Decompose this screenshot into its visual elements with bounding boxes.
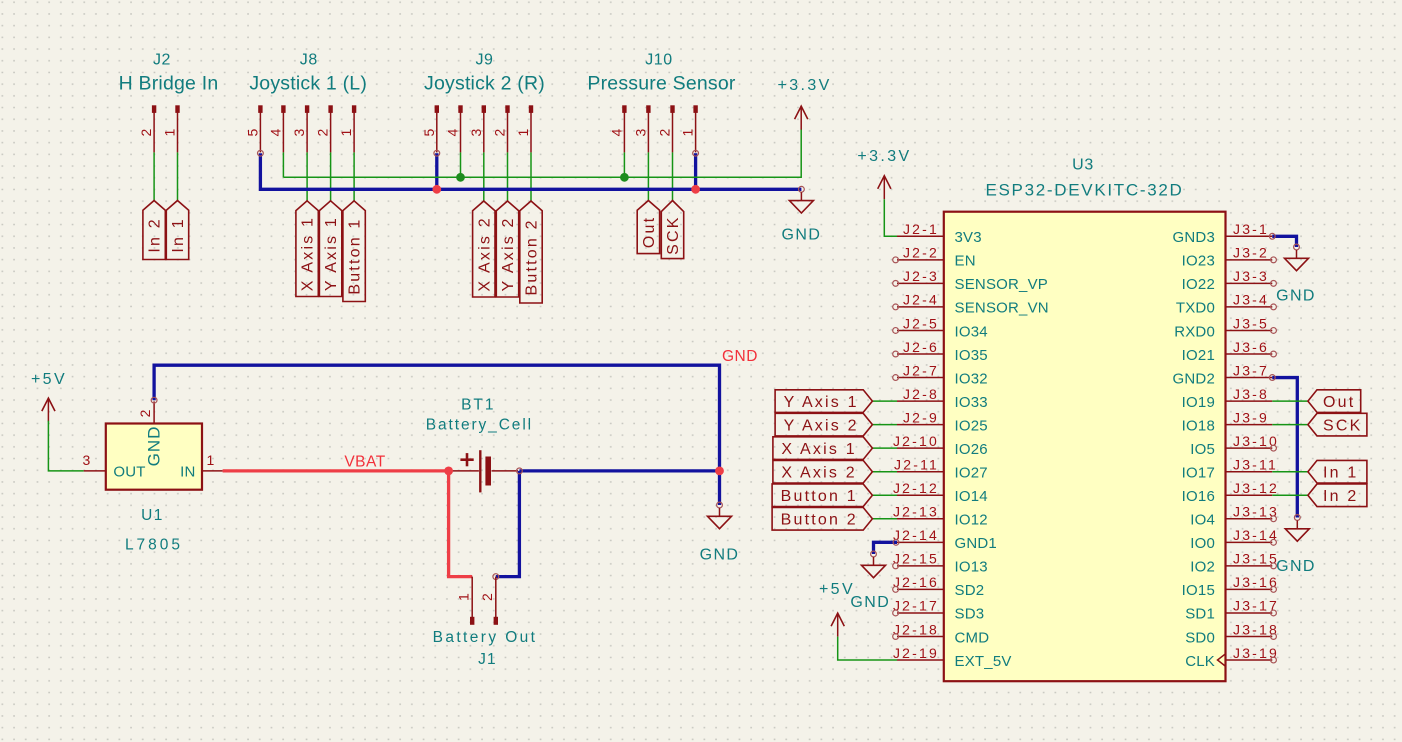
wire In 1 at U3 right xyxy=(1272,471,1308,473)
wire U3 GND2 to ground xyxy=(1272,378,1297,518)
svg-text:Out: Out xyxy=(641,216,658,248)
connector J2 reference and name xyxy=(119,52,219,95)
pin J3-17 of U3 (SD1) xyxy=(1185,598,1279,623)
pin J3-19 of U3 (CLK) xyxy=(1185,645,1279,670)
svg-text:SENSOR_VP: SENSOR_VP xyxy=(955,276,1049,293)
pin J3-10 of U3 (IO5) xyxy=(1190,433,1279,458)
svg-text:1: 1 xyxy=(680,127,696,137)
pin J3-4 of U3 (TXD0) xyxy=(1176,292,1277,317)
pin J3-2 of U3 (IO23) xyxy=(1182,245,1277,270)
U1 pin name OUT xyxy=(113,464,145,481)
svg-text:SD1: SD1 xyxy=(1185,606,1215,623)
svg-text:2: 2 xyxy=(138,127,154,137)
svg-text:IO17: IO17 xyxy=(1182,465,1215,482)
wire +5V to U3 EXT_5V xyxy=(838,637,897,660)
svg-text:J2-1: J2-1 xyxy=(903,221,939,237)
net label SCK xyxy=(661,201,683,259)
svg-text:GND: GND xyxy=(850,594,890,611)
wire X Axis 2 to U3 xyxy=(872,471,897,473)
pin J3-6 of U3 (IO21) xyxy=(1182,339,1277,364)
net label VBAT xyxy=(344,454,385,471)
net label X Axis 1 at U3 xyxy=(773,437,873,460)
net label Button 2 at U3 xyxy=(772,507,872,530)
svg-text:GND: GND xyxy=(1276,288,1316,305)
connector J1 name and reference xyxy=(433,629,538,668)
wire J10 pin1 to GND bus xyxy=(694,153,697,189)
wire X Axis 1 to U3 xyxy=(872,447,897,449)
dangling end circle J8 pin5 xyxy=(258,150,264,156)
svg-text:IO35: IO35 xyxy=(955,347,988,364)
svg-text:SD3: SD3 xyxy=(955,606,985,623)
net label In 2 at U3 right xyxy=(1308,484,1367,507)
svg-text:3: 3 xyxy=(83,452,93,468)
svg-text:2: 2 xyxy=(657,127,673,137)
svg-text:IO2: IO2 xyxy=(1190,559,1215,576)
svg-text:IO18: IO18 xyxy=(1182,417,1215,434)
wire J10 pin2 to label xyxy=(672,152,674,200)
svg-text:In 1: In 1 xyxy=(170,217,187,253)
power symbol +3.3V at U3 xyxy=(857,148,911,199)
net label In 1 at U3 right xyxy=(1308,460,1367,483)
svg-text:IO15: IO15 xyxy=(1182,582,1215,599)
svg-text:3: 3 xyxy=(468,127,484,137)
svg-text:J3-15: J3-15 xyxy=(1233,551,1279,567)
pin J2-6 of U3 (IO35) xyxy=(893,339,988,364)
svg-text:GND: GND xyxy=(1276,558,1316,575)
pin J2-10 of U3 (IO26) xyxy=(893,433,988,458)
svg-text:SENSOR_VN: SENSOR_VN xyxy=(955,300,1049,317)
svg-text:2: 2 xyxy=(137,407,153,417)
svg-text:IO23: IO23 xyxy=(1182,253,1215,270)
U1 value L7805 xyxy=(125,537,183,554)
junction J9 pin4 on 3.3V bus xyxy=(456,173,465,182)
svg-text:SCK: SCK xyxy=(665,215,682,255)
pin J2-15 of U3 (IO13) xyxy=(893,551,988,576)
net label Button 1 xyxy=(343,201,365,302)
U1 pin name IN xyxy=(180,464,195,481)
svg-text:3: 3 xyxy=(632,127,648,137)
svg-text:RXD0: RXD0 xyxy=(1174,323,1215,340)
pin 5 of J8 xyxy=(244,105,262,152)
net label Y Axis 2 xyxy=(496,201,518,297)
svg-text:IO25: IO25 xyxy=(955,417,988,434)
svg-text:H Bridge In: H Bridge In xyxy=(119,73,219,95)
svg-text:TXD0: TXD0 xyxy=(1176,300,1215,317)
pin J2-12 of U3 (IO14) xyxy=(893,480,988,505)
U3 value ESP32-DEVKITC-32D xyxy=(985,181,1183,200)
svg-text:Y Axis 2: Y Axis 2 xyxy=(784,417,859,434)
svg-text:U3: U3 xyxy=(1072,157,1094,174)
svg-text:SD0: SD0 xyxy=(1185,629,1215,646)
connector J10 reference and name xyxy=(587,52,736,95)
wire J9 pin5 to GND bus xyxy=(435,153,438,189)
svg-text:J3-8: J3-8 xyxy=(1233,386,1269,402)
svg-text:1: 1 xyxy=(162,127,178,137)
pin J3-11 of U3 (IO17) xyxy=(1182,457,1278,482)
svg-text:J2-9: J2-9 xyxy=(903,409,939,425)
ground at U3 GND3 xyxy=(1276,244,1316,304)
svg-text:X Axis 1: X Axis 1 xyxy=(781,441,856,458)
pin J3-18 of U3 (SD0) xyxy=(1185,621,1279,646)
svg-text:IO34: IO34 xyxy=(955,323,988,340)
pin 3 of U1 xyxy=(83,452,106,471)
svg-text:J2-19: J2-19 xyxy=(893,645,939,661)
pin 2 of J10 xyxy=(657,105,675,152)
svg-text:CLK: CLK xyxy=(1185,653,1215,670)
svg-text:J2-15: J2-15 xyxy=(893,551,939,567)
junction GND at battery xyxy=(715,467,724,476)
wire J2 pin2 to label xyxy=(153,152,155,200)
svg-text:SD2: SD2 xyxy=(955,582,985,599)
battery BT1 symbol xyxy=(449,450,518,492)
svg-text:IO32: IO32 xyxy=(955,370,988,387)
net label In 1 xyxy=(166,201,188,260)
svg-text:4: 4 xyxy=(608,127,624,137)
power symbol +5V xyxy=(31,371,67,422)
svg-text:IO14: IO14 xyxy=(955,488,988,505)
svg-text:J3-18: J3-18 xyxy=(1233,621,1279,637)
svg-text:X Axis 2: X Axis 2 xyxy=(476,216,493,291)
svg-text:Out: Out xyxy=(1323,394,1355,411)
svg-text:+5V: +5V xyxy=(819,581,855,598)
wire J8 pin3 to label xyxy=(306,152,308,200)
wire J8 pin2 to label xyxy=(330,152,332,200)
svg-text:IO4: IO4 xyxy=(1190,512,1215,529)
pin 4 of J9 xyxy=(445,105,463,152)
wire U1 pin2 to GND node xyxy=(154,365,719,505)
MCU U3 body xyxy=(944,212,1226,682)
wire +3.3V to U3 3V3 xyxy=(884,199,897,236)
svg-text:OUT: OUT xyxy=(113,464,145,481)
wire VBAT xyxy=(223,469,449,472)
pin 1 of U1 xyxy=(202,452,223,471)
pin J2-17 of U3 (SD3) xyxy=(893,598,985,623)
svg-text:J2-10: J2-10 xyxy=(893,433,939,449)
wire 3.3V bus top xyxy=(283,129,801,178)
pin J3-8 of U3 (IO19) xyxy=(1182,386,1273,411)
pin J3-3 of U3 (IO22) xyxy=(1182,268,1277,293)
svg-text:IN: IN xyxy=(180,464,195,481)
svg-text:Y Axis 2: Y Axis 2 xyxy=(500,216,517,291)
dangling end circle U3 GND2 xyxy=(1269,375,1275,381)
svg-text:J3-7: J3-7 xyxy=(1233,362,1269,378)
wire J2 pin1 to label xyxy=(177,152,179,200)
svg-text:IO33: IO33 xyxy=(955,394,988,411)
net label SCK at U3 right xyxy=(1308,413,1367,436)
svg-text:J2-4: J2-4 xyxy=(903,292,939,308)
svg-text:GND: GND xyxy=(145,426,164,467)
svg-text:J3-17: J3-17 xyxy=(1233,598,1279,614)
pin J3-14 of U3 (IO0) xyxy=(1190,527,1279,552)
svg-text:J3-13: J3-13 xyxy=(1233,504,1279,520)
junction J9 pin5 on GND bus xyxy=(432,185,441,194)
svg-text:J3-6: J3-6 xyxy=(1233,339,1269,355)
svg-text:J3-10: J3-10 xyxy=(1233,433,1279,449)
svg-text:J2-2: J2-2 xyxy=(903,245,939,261)
net label Y Axis 1 at U3 xyxy=(775,390,872,413)
wire battery minus to J1 pin2 xyxy=(496,471,520,577)
svg-text:2: 2 xyxy=(315,127,331,137)
svg-text:J3-16: J3-16 xyxy=(1233,574,1279,590)
svg-text:In 2: In 2 xyxy=(147,217,164,253)
wire In 2 at U3 right xyxy=(1272,494,1308,496)
svg-text:1: 1 xyxy=(207,452,217,468)
svg-text:VBAT: VBAT xyxy=(344,454,385,471)
wire J10 pin4 to 3.3V bus xyxy=(623,152,625,177)
net label Y Axis 2 at U3 xyxy=(775,413,872,436)
pin J3-15 of U3 (IO2) xyxy=(1190,551,1279,576)
wire J9 pin3 to label xyxy=(483,152,485,201)
svg-text:Y Axis 1: Y Axis 1 xyxy=(323,216,340,291)
svg-text:J3-19: J3-19 xyxy=(1233,645,1279,661)
svg-text:In 1: In 1 xyxy=(1323,465,1359,482)
svg-text:5: 5 xyxy=(421,127,437,137)
wire J9 pin4 to 3.3V bus xyxy=(460,152,462,177)
svg-text:GND: GND xyxy=(782,227,822,244)
pin J3-16 of U3 (IO15) xyxy=(1182,574,1279,599)
pin J2-14 of U3 (GND1) xyxy=(893,527,997,552)
pin 5 of J9 xyxy=(421,105,439,152)
dangling end circle battery minus xyxy=(517,468,523,474)
wire GND bus top xyxy=(260,153,801,189)
svg-text:ESP32-DEVKITC-32D: ESP32-DEVKITC-32D xyxy=(985,181,1183,200)
wire J9 pin2 to label xyxy=(507,152,509,201)
pin 3 of J9 xyxy=(468,105,486,152)
wire SCK at U3 right xyxy=(1272,424,1308,426)
pin 4 of J10 xyxy=(608,105,626,152)
svg-text:J3-3: J3-3 xyxy=(1233,268,1269,284)
dangling end circle J9 pin5 xyxy=(434,150,440,156)
net label X Axis 2 xyxy=(473,201,495,297)
svg-text:Button 1: Button 1 xyxy=(781,488,858,505)
svg-text:+3.3V: +3.3V xyxy=(857,148,911,165)
svg-text:Pressure Sensor: Pressure Sensor xyxy=(587,73,736,95)
svg-text:IO26: IO26 xyxy=(955,441,988,458)
svg-text:J2-13: J2-13 xyxy=(893,504,939,520)
svg-text:J3-2: J3-2 xyxy=(1233,245,1269,261)
svg-text:GND1: GND1 xyxy=(955,535,997,552)
svg-text:J2-5: J2-5 xyxy=(903,315,939,331)
svg-text:IO16: IO16 xyxy=(1182,488,1215,505)
svg-text:4: 4 xyxy=(267,127,283,137)
pin J2-13 of U3 (IO12) xyxy=(893,504,988,529)
wire J8 pin1 to label xyxy=(353,152,355,200)
pin J3-12 of U3 (IO16) xyxy=(1182,480,1279,505)
svg-text:J2-3: J2-3 xyxy=(903,268,939,284)
wire J10 pin3 to label xyxy=(647,152,649,200)
svg-text:IO13: IO13 xyxy=(955,559,988,576)
junction J10 pin1 on GND bus xyxy=(691,185,700,194)
dangling end circle J10 pin1 xyxy=(693,150,699,156)
power symbol +5V at U3 xyxy=(819,581,855,637)
svg-text:1: 1 xyxy=(456,591,472,601)
pin J2-11 of U3 (IO27) xyxy=(894,457,988,482)
pin J2-3 of U3 (SENSOR_VP) xyxy=(893,268,1048,293)
pin J2-8 of U3 (IO33) xyxy=(897,386,988,411)
pin J2-5 of U3 (IO34) xyxy=(893,315,988,340)
svg-text:Button 1: Button 1 xyxy=(347,217,364,294)
pin J3-13 of U3 (IO4) xyxy=(1190,504,1279,529)
wire Button 2 to U3 xyxy=(872,518,897,520)
svg-text:X Axis 1: X Axis 1 xyxy=(300,216,317,291)
dangling end circle U3 GND3 xyxy=(1269,233,1275,239)
pin J3-1 of U3 (GND3) xyxy=(1173,221,1273,246)
svg-text:4: 4 xyxy=(445,127,461,137)
svg-text:IO0: IO0 xyxy=(1190,535,1215,552)
wire Button 1 to U3 xyxy=(872,494,897,496)
pin J3-5 of U3 (RXD0) xyxy=(1174,315,1276,340)
junction VBAT at battery xyxy=(444,467,453,476)
pin J2-9 of U3 (IO25) xyxy=(897,409,988,434)
wire Y Axis 2 to U3 xyxy=(872,424,897,426)
pin 2 of J9 xyxy=(492,105,510,152)
junction J10 pin4 on 3.3V bus xyxy=(620,173,629,182)
svg-text:J2-12: J2-12 xyxy=(893,480,939,496)
svg-text:J2-8: J2-8 xyxy=(903,386,939,402)
pin J2-18 of U3 (CMD) xyxy=(893,621,990,646)
pin J2-1 of U3 (3V3) xyxy=(897,221,982,246)
wire battery minus to GND xyxy=(519,469,719,472)
svg-text:J2: J2 xyxy=(153,52,171,69)
svg-text:EN: EN xyxy=(955,253,976,270)
svg-text:GND: GND xyxy=(722,348,758,365)
svg-text:Joystick 1 (L): Joystick 1 (L) xyxy=(249,73,367,95)
U1 pin name GND xyxy=(145,426,164,467)
pin J3-9 of U3 (IO18) xyxy=(1182,409,1273,434)
net label Out at U3 right xyxy=(1308,390,1361,413)
battery BT1 value xyxy=(426,417,533,434)
svg-text:IO22: IO22 xyxy=(1182,276,1215,293)
svg-text:J2-6: J2-6 xyxy=(903,339,939,355)
pin 2 of U1 xyxy=(137,401,154,423)
battery BT1 reference xyxy=(461,397,495,414)
svg-text:EXT_5V: EXT_5V xyxy=(955,653,1012,670)
pin 3 of J8 xyxy=(291,105,309,152)
svg-text:2: 2 xyxy=(492,127,508,137)
svg-text:J3-4: J3-4 xyxy=(1233,292,1269,308)
pin J3-7 of U3 (GND2) xyxy=(1173,362,1273,387)
dangling end circle U3 GND1 xyxy=(893,539,899,545)
pin 4 of J8 xyxy=(267,105,285,152)
svg-text:+5V: +5V xyxy=(31,371,67,388)
pin 1 of J10 xyxy=(680,105,698,152)
pin 1 of J8 xyxy=(338,105,356,152)
wire U3 GND3 to ground xyxy=(1272,236,1296,247)
svg-text:J1: J1 xyxy=(478,651,497,668)
svg-text:J2-11: J2-11 xyxy=(894,457,939,473)
ground middle xyxy=(700,502,740,563)
wire J9 pin1 to label xyxy=(530,152,532,201)
connector J8 reference and name xyxy=(249,52,367,95)
svg-text:GND: GND xyxy=(700,547,740,564)
wire Y Axis 1 to U3 xyxy=(872,400,897,402)
svg-text:2: 2 xyxy=(479,591,495,601)
svg-text:GND2: GND2 xyxy=(1173,370,1215,387)
svg-text:J10: J10 xyxy=(645,52,673,69)
pin 1 of J9 xyxy=(515,105,533,152)
U1 reference xyxy=(141,507,164,524)
svg-text:Y Axis 1: Y Axis 1 xyxy=(784,394,859,411)
power symbol +3.3V top xyxy=(777,77,831,130)
net label Out xyxy=(637,201,659,254)
svg-text:Battery Out: Battery Out xyxy=(433,629,538,646)
svg-text:J3-1: J3-1 xyxy=(1233,221,1269,237)
connector J9 reference and name xyxy=(424,52,545,95)
svg-text:J3-12: J3-12 xyxy=(1233,480,1279,496)
svg-text:5: 5 xyxy=(244,127,260,137)
pin J2-19 of U3 (EXT_5V) xyxy=(893,645,1012,670)
svg-text:IO5: IO5 xyxy=(1190,441,1215,458)
svg-text:In 2: In 2 xyxy=(1323,488,1359,505)
pin 2 of J2 xyxy=(138,105,156,152)
svg-text:Joystick 2 (R): Joystick 2 (R) xyxy=(424,73,545,95)
pin J2-16 of U3 (SD2) xyxy=(893,574,985,599)
ground at U3 GND1 xyxy=(850,551,890,611)
svg-text:J3-5: J3-5 xyxy=(1233,315,1269,331)
net label Button 2 xyxy=(520,201,542,303)
svg-text:Button 2: Button 2 xyxy=(781,512,858,529)
wire U3 GND1 to ground xyxy=(874,542,898,554)
net label In 2 xyxy=(143,201,165,260)
svg-text:IO27: IO27 xyxy=(955,465,988,482)
svg-text:J3-11: J3-11 xyxy=(1233,457,1278,473)
svg-text:U1: U1 xyxy=(141,507,164,524)
ground top right xyxy=(782,186,822,243)
svg-text:IO19: IO19 xyxy=(1182,394,1215,411)
svg-text:Battery_Cell: Battery_Cell xyxy=(426,417,533,434)
net label X Axis 1 xyxy=(296,201,318,297)
pin 2 of J8 xyxy=(315,105,333,152)
dangling end circle J1 pin2 xyxy=(493,574,499,580)
svg-text:GND3: GND3 xyxy=(1173,229,1215,246)
svg-text:J3-14: J3-14 xyxy=(1233,527,1279,543)
dangling end circle U1 pin2 xyxy=(151,397,157,403)
svg-text:L7805: L7805 xyxy=(125,537,183,554)
ground at U3 GND2 xyxy=(1276,515,1316,575)
pin 2 of J1 xyxy=(479,577,498,625)
svg-text:J2-16: J2-16 xyxy=(893,574,939,590)
svg-text:J2-18: J2-18 xyxy=(893,621,939,637)
svg-text:J8: J8 xyxy=(300,52,318,69)
pin J2-7 of U3 (IO32) xyxy=(893,362,988,387)
wire VBAT to J1 pin1 xyxy=(449,471,473,577)
svg-text:1: 1 xyxy=(338,127,354,137)
net label X Axis 2 at U3 xyxy=(773,460,873,483)
net label Y Axis 1 xyxy=(319,201,341,297)
svg-text:1: 1 xyxy=(515,127,531,137)
pin 3 of J10 xyxy=(632,105,650,152)
svg-text:IO12: IO12 xyxy=(955,512,988,529)
pin J2-2 of U3 (EN) xyxy=(893,245,976,270)
svg-text:3V3: 3V3 xyxy=(955,229,982,246)
svg-text:J2-17: J2-17 xyxy=(893,598,939,614)
svg-text:Button 2: Button 2 xyxy=(524,218,541,295)
svg-text:X Axis 2: X Axis 2 xyxy=(781,465,856,482)
wire +5V to U1 OUT xyxy=(48,421,83,471)
svg-text:3: 3 xyxy=(291,127,307,137)
net label GND middle xyxy=(722,348,758,365)
wire Out at U3 right xyxy=(1272,400,1308,402)
svg-text:J3-9: J3-9 xyxy=(1233,409,1269,425)
svg-text:J2-7: J2-7 xyxy=(903,362,939,378)
U3 reference xyxy=(1072,157,1094,174)
regulator U1 body xyxy=(106,424,202,490)
svg-text:IO21: IO21 xyxy=(1182,347,1215,364)
svg-text:J2-14: J2-14 xyxy=(893,527,939,543)
pin 1 of J2 xyxy=(162,105,180,152)
svg-text:BT1: BT1 xyxy=(461,397,495,414)
pin 1 of J1 xyxy=(456,577,475,625)
